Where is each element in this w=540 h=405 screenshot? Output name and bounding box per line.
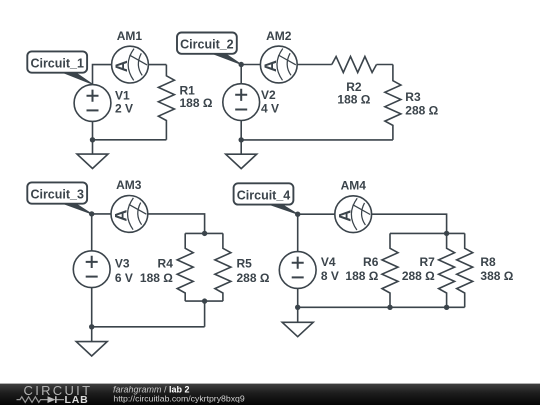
voltage source V4 <box>279 252 316 289</box>
svg-text:R6: R6 <box>363 255 379 269</box>
wire node A3 through AM3 right <box>92 214 205 234</box>
wire top bracket circuit 3 <box>185 232 223 234</box>
svg-text:188 Ω: 188 Ω <box>180 96 213 110</box>
wire V4- down <box>297 288 299 307</box>
wire node to ground 1 <box>92 140 94 154</box>
node junction circuit2 bottom <box>239 137 244 142</box>
resistor R3 <box>385 65 401 140</box>
wire node A2 through AM2 to R2 <box>241 64 332 66</box>
node junction circuit4 top <box>295 212 300 217</box>
svg-text:R4: R4 <box>158 256 174 270</box>
wire node to ground 2 <box>240 140 242 154</box>
voltage source V2 <box>223 84 260 121</box>
svg-text:188 Ω: 188 Ω <box>345 269 378 283</box>
svg-text:288 Ω: 288 Ω <box>237 271 270 285</box>
node junction R6 rail <box>387 305 392 310</box>
svg-text:V3: V3 <box>115 256 130 270</box>
wire node A3 to V3+ <box>91 214 93 251</box>
ammeter AM4 <box>335 196 372 233</box>
node junction circuit3 bottom <box>89 324 94 329</box>
node junction bracket top 3 <box>202 231 207 236</box>
ground circuit 2 <box>226 154 257 168</box>
svg-text:R3: R3 <box>405 90 421 104</box>
resistor R4 <box>177 233 193 301</box>
wire V2- down <box>240 121 242 140</box>
svg-text:V2: V2 <box>261 88 276 102</box>
footer bar <box>0 384 540 405</box>
svg-text:AM1: AM1 <box>117 29 143 43</box>
svg-text:188 Ω: 188 Ω <box>337 92 370 106</box>
svg-text:AM3: AM3 <box>116 178 142 192</box>
resistor R7 <box>439 233 455 307</box>
svg-text:388 Ω: 388 Ω <box>480 269 513 283</box>
resistor R2 <box>332 57 377 73</box>
svg-text:V4: V4 <box>321 255 336 269</box>
ammeter AM3 <box>111 196 148 233</box>
wire bottom rail circuit 2 <box>241 139 393 141</box>
svg-text:4 V: 4 V <box>261 101 279 115</box>
svg-text:6 V: 6 V <box>115 271 133 285</box>
wire bottom rail circuit 3 <box>92 326 205 328</box>
node junction bracket bottom 3 <box>202 298 207 303</box>
wire top bracket circuit 4 <box>390 232 465 234</box>
node flag Circuit_1 <box>27 51 92 84</box>
voltage source V1 <box>74 85 111 122</box>
svg-text:AM2: AM2 <box>266 29 292 43</box>
wire R2 to R3 corner <box>377 64 393 66</box>
resistor R6 <box>382 233 398 307</box>
node junction circuit3 top <box>89 211 94 216</box>
ground circuit 4 <box>282 322 313 336</box>
svg-text:AM4: AM4 <box>341 179 367 193</box>
node junction R7 rail <box>444 305 449 310</box>
svg-text:8 V: 8 V <box>321 269 339 283</box>
node flag Circuit_4 <box>234 183 298 214</box>
svg-text:R8: R8 <box>480 255 496 269</box>
wire node A2 to V2+ <box>240 65 242 84</box>
voltage source V3 <box>73 251 110 288</box>
wire AM1 right to R1 top <box>148 64 166 66</box>
wire V1- down to node <box>92 121 94 139</box>
resistor R5 <box>215 233 231 301</box>
wire bracket to rail circuit 3 <box>204 301 206 327</box>
svg-text:Circuit_4: Circuit_4 <box>237 188 291 202</box>
node junction circuit2 top <box>239 62 244 67</box>
wire node to ground 3 <box>91 327 93 342</box>
ground circuit 3 <box>76 342 107 356</box>
wire V1+ to AM1 left <box>93 65 112 85</box>
ammeter AM2 <box>260 46 297 83</box>
resistor R8 <box>457 233 473 307</box>
ammeter AM1 <box>112 46 149 83</box>
wire bottom bracket circuit 3 <box>185 300 223 302</box>
wire node to ground 4 <box>297 307 299 322</box>
svg-text:Circuit_1: Circuit_1 <box>30 56 84 70</box>
svg-text:Circuit_3: Circuit_3 <box>30 187 84 201</box>
svg-text:R7: R7 <box>419 255 435 269</box>
svg-text:http://circuitlab.com/cykrtpry: http://circuitlab.com/cykrtpry8bxq9 <box>113 394 244 404</box>
svg-text:LAB: LAB <box>65 394 89 405</box>
wire node A4 to V4+ <box>297 214 299 251</box>
resistor R1 <box>158 65 174 140</box>
svg-text:V1: V1 <box>115 88 130 102</box>
svg-text:288 Ω: 288 Ω <box>405 104 438 118</box>
wire V3- down <box>91 288 93 327</box>
svg-text:2 V: 2 V <box>115 102 133 116</box>
node junction bracket top 4 <box>444 231 449 236</box>
node junction circuit4 bottom <box>295 305 300 310</box>
ground circuit 1 <box>77 154 108 168</box>
node flag Circuit_3 <box>27 182 91 214</box>
wire node A4 through AM4 right <box>298 214 447 233</box>
node flag Circuit_2 <box>177 33 241 65</box>
svg-text:188 Ω: 188 Ω <box>140 271 173 285</box>
wire bottom rail circuit 4 <box>298 306 465 308</box>
CircuitLab logo resistor zigzag and diode <box>17 397 65 403</box>
svg-text:288 Ω: 288 Ω <box>402 269 435 283</box>
node junction circuit1 bottom <box>90 137 95 142</box>
wire bottom rail circuit 1 <box>93 139 167 141</box>
svg-text:R5: R5 <box>237 256 253 270</box>
svg-text:Circuit_2: Circuit_2 <box>180 38 234 52</box>
